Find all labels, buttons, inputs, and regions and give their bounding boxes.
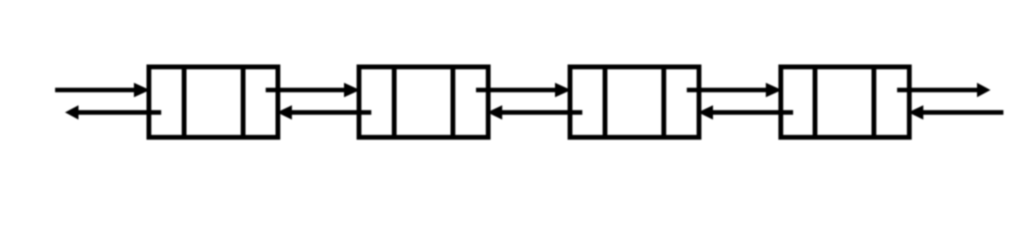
- node 1 box: [149, 67, 278, 137]
- node 2 prev/data divider: [392, 67, 397, 137]
- node 3 prev/data divider: [603, 67, 608, 137]
- arrow prev node 4 to node 3: [698, 105, 793, 119]
- node 4 prev/data divider: [813, 67, 818, 137]
- node 3 box: [570, 67, 699, 137]
- arrow prev-out of node 1 (backward exit left): [65, 105, 161, 119]
- arrow prev node 2 to node 1: [277, 105, 371, 119]
- node 4 data/next divider: [872, 67, 877, 137]
- arrow next-out of node 4 (forward exit right): [897, 83, 990, 97]
- node 2 data/next divider: [450, 67, 455, 137]
- arrow tail-in to node 4 (backward entry): [908, 105, 1003, 119]
- arrow head-in to node 1 (forward entry): [55, 83, 150, 97]
- arrow prev node 3 to node 2: [487, 105, 582, 119]
- arrow next node 2 to node 3: [476, 83, 571, 97]
- arrow next node 1 to node 2: [266, 83, 360, 97]
- node 4 box: [781, 67, 910, 137]
- arrow next node 3 to node 4: [687, 83, 782, 97]
- node 1 data/next divider: [241, 67, 246, 137]
- node 3 data/next divider: [661, 67, 666, 137]
- node 1 prev/data divider: [182, 67, 187, 137]
- node 2 box: [359, 67, 488, 137]
